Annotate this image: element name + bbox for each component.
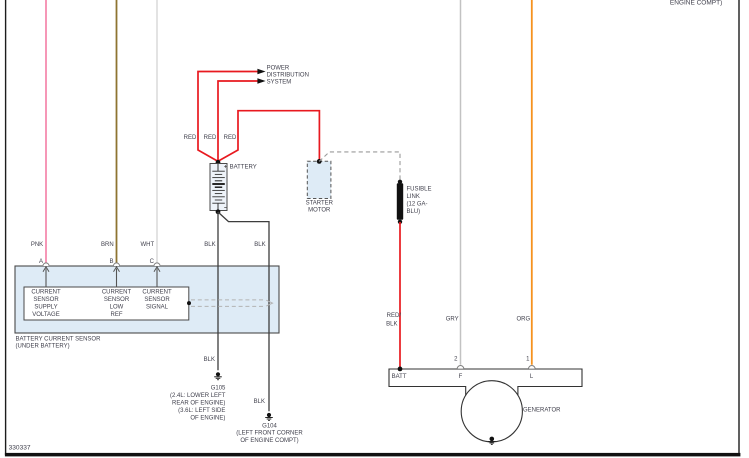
ground G104 [236,413,303,444]
node battery positive [216,160,221,165]
battery [210,164,257,211]
generator box [389,369,582,413]
svg-text:G104: G104 [262,423,277,429]
svg-text:ENGINE COMPT): ENGINE COMPT) [670,0,722,6]
svg-text:SENSOR: SENSOR [33,297,59,303]
wire ORG [517,0,532,365]
node generator BATT terminal [398,367,403,372]
pin C internal wire with arrow [154,267,160,288]
svg-text:STARTER: STARTER [306,200,334,206]
svg-text:(3.6L: LEFT SIDE: (3.6L: LEFT SIDE [178,408,225,414]
diagram number 330337 [9,445,31,452]
ground G105 [170,372,226,421]
battery current sensor box [15,266,279,350]
svg-text:BLK: BLK [386,322,397,328]
svg-text:OF ENGINE): OF ENGINE) [190,415,225,421]
svg-text:G105: G105 [211,385,226,391]
inner function box of current sensor [24,287,189,320]
wire GRY [446,0,461,365]
dashed link starter motor to fusible link [319,152,400,182]
svg-text:(12 GA-: (12 GA- [407,202,428,208]
generator circle [461,381,522,442]
svg-text:BRN: BRN [101,242,114,248]
node sensor output [187,301,191,305]
frame bottom bar [5,453,741,457]
node starter motor terminal [317,159,322,164]
svg-text:RED/: RED/ [387,313,402,319]
dashed sensor arrow [191,300,273,307]
wire WHT [141,0,157,263]
wire RED battery to starter motor [218,111,319,162]
svg-text:RED: RED [184,135,197,141]
wire BLK battery to G105 [204,212,218,370]
svg-text:ORG: ORG [517,316,531,322]
svg-text:OF ENGINE COMPT): OF ENGINE COMPT) [240,438,298,444]
node battery negative [216,209,221,214]
label ENGINE COMPT (cut off at top) [670,0,722,6]
svg-text:BLK: BLK [254,399,265,405]
svg-text:GRY: GRY [446,316,459,322]
svg-text:1: 1 [526,357,530,363]
svg-text:2: 2 [454,357,458,363]
pin A internal wire with arrow [43,267,49,288]
arrow to power distribution system 2 [257,78,265,84]
svg-text:POWER: POWER [267,65,290,71]
connector pin 1 (L) [526,357,535,369]
svg-text:C: C [150,259,155,265]
arrow to power distribution system 1 [257,69,265,75]
svg-text:BATTERY CURRENT SENSOR: BATTERY CURRENT SENSOR [16,337,102,343]
connector pin 2 (F) [454,357,464,369]
svg-text:SENSOR: SENSOR [144,297,170,303]
svg-text:SIGNAL: SIGNAL [146,305,169,311]
frame border right [738,0,740,455]
svg-text:(LEFT FRONT CORNER: (LEFT FRONT CORNER [236,431,303,437]
starter motor M1 [306,161,334,213]
svg-text:330337: 330337 [9,445,31,452]
wire BLK battery to G104 [218,212,269,411]
svg-text:CURRENT: CURRENT [142,290,172,296]
svg-text:BATT: BATT [392,374,407,380]
svg-text:L: L [530,374,534,380]
svg-text:REF: REF [111,312,123,318]
wire PNK [31,0,46,263]
svg-text:SUPPLY: SUPPLY [34,305,57,311]
svg-text:BLK: BLK [204,357,215,363]
svg-text:WHT: WHT [141,242,155,248]
svg-text:CURRENT: CURRENT [102,290,132,296]
svg-text:F: F [459,374,463,380]
svg-text:FUSIBLE: FUSIBLE [407,186,432,192]
frame border left [5,0,7,455]
svg-text:LINK: LINK [407,194,420,200]
svg-text:DISTRIBUTION: DISTRIBUTION [267,73,309,79]
pin B internal wire with arrow [114,267,120,288]
pin C connector [150,259,160,266]
wire BRN [101,0,116,263]
label POWER DISTRIBUTION SYSTEM [267,65,309,85]
svg-text:BLU): BLU) [407,209,421,215]
svg-text:BATTERY: BATTERY [230,165,257,171]
ground generator case [488,437,496,445]
svg-text:(UNDER BATTERY): (UNDER BATTERY) [16,344,70,350]
fusible link F1 [397,180,432,224]
wire RED to power distribution arrow 1 [184,72,258,162]
svg-text:RED: RED [224,135,237,141]
svg-text:GENERATOR: GENERATOR [523,407,561,413]
svg-text:PNK: PNK [31,242,43,248]
wire RED/BLK fusible link to generator BATT [386,222,401,369]
svg-text:LOW: LOW [110,305,124,311]
svg-text:SYSTEM: SYSTEM [267,80,292,86]
svg-text:REAR OF ENGINE): REAR OF ENGINE) [172,400,225,406]
pin A connector [39,259,49,266]
svg-text:BLK: BLK [204,242,215,248]
svg-text:BLK: BLK [254,242,265,248]
pin B connector [109,259,119,266]
svg-text:RED: RED [204,135,217,141]
svg-text:B: B [109,259,113,265]
svg-text:CURRENT: CURRENT [31,290,61,296]
svg-text:VOLTAGE: VOLTAGE [32,312,59,318]
svg-text:(2.4L: LOWER LEFT: (2.4L: LOWER LEFT [170,393,226,399]
wire RED to power distribution arrow 2 [204,81,258,161]
svg-text:MOTOR: MOTOR [308,208,331,214]
svg-text:A: A [39,259,43,265]
svg-text:SENSOR: SENSOR [104,297,130,303]
